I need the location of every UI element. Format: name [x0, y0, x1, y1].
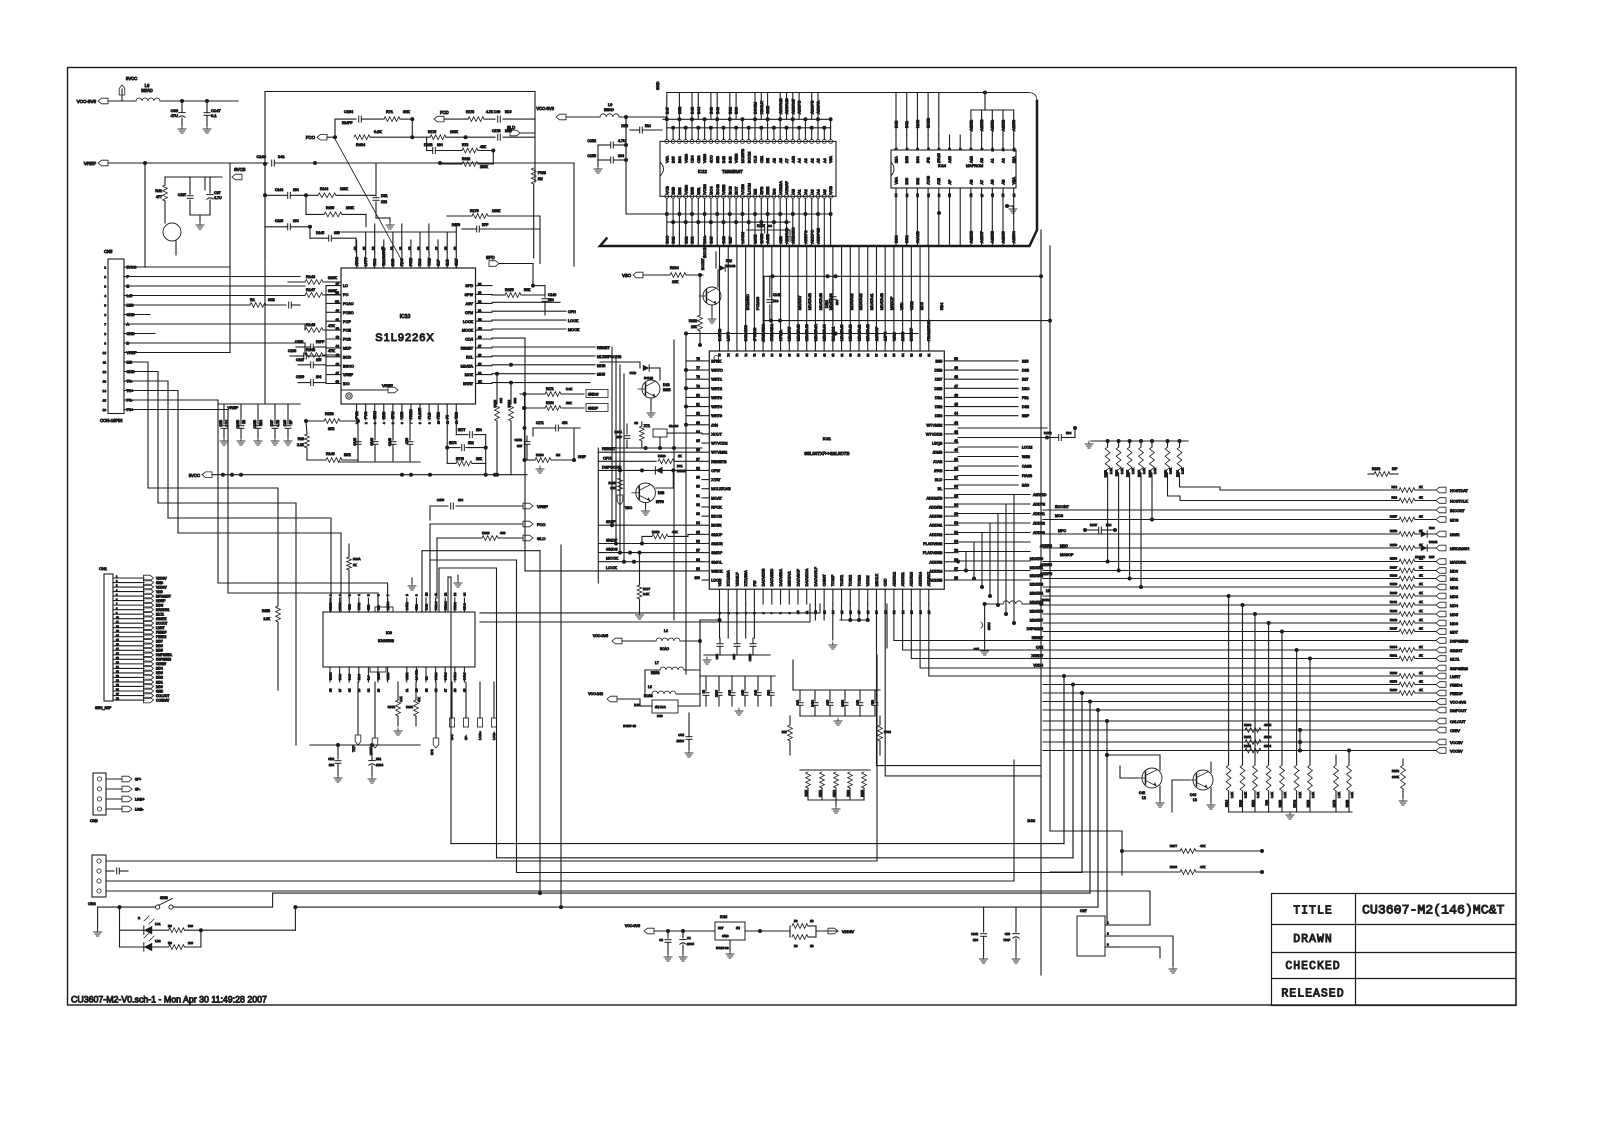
svg-text:100: 100 [694, 576, 700, 580]
svg-text:A0DF1D: A0DF1D [1033, 493, 1047, 497]
svg-text:LOOM: LOOM [1022, 446, 1032, 450]
svg-text:12: 12 [1012, 148, 1016, 152]
svg-text:CLB: CLB [754, 155, 758, 163]
svg-text:D9B: D9B [1022, 369, 1030, 373]
svg-text:31: 31 [926, 193, 930, 197]
svg-text:A2: A2 [804, 189, 808, 194]
svg-text:BE: BE [766, 158, 770, 163]
svg-text:70: 70 [761, 353, 765, 357]
svg-text:MRD/MWH: MRD/MWH [1450, 547, 1469, 551]
svg-text:GNDS: GNDS [606, 547, 618, 552]
svg-text:ADDR12: ADDR12 [892, 572, 896, 586]
svg-text:A1: A1 [798, 189, 802, 194]
svg-text:FCO: FCO [537, 522, 545, 527]
svg-text:ADDPB: ADDPB [809, 100, 814, 114]
svg-text:B414B: B414B [644, 376, 653, 380]
svg-text:104: 104 [835, 300, 839, 305]
svg-text:8K2: 8K2 [328, 427, 334, 431]
svg-text:44: 44 [336, 344, 340, 348]
svg-text:470H: 470H [1264, 723, 1271, 727]
svg-text:C140: C140 [548, 293, 556, 297]
svg-text:B6O: B6O [664, 236, 669, 244]
svg-text:90: 90 [696, 485, 700, 489]
svg-text:C127: C127 [178, 193, 186, 197]
svg-text:C2B: C2B [219, 419, 223, 426]
svg-text:SMDN: SMDN [711, 542, 722, 546]
svg-text:DB-2: DB-2 [463, 603, 467, 610]
svg-text:BO7: BO7 [735, 187, 739, 194]
svg-text:R13: R13 [1391, 496, 1397, 500]
svg-text:PO: PO [343, 293, 348, 297]
svg-text:16: 16 [478, 353, 482, 357]
svg-text:V5A: V5A [665, 155, 669, 163]
svg-text:R145: R145 [306, 323, 315, 327]
svg-text:24: 24 [367, 688, 371, 692]
svg-text:C155: C155 [437, 498, 445, 502]
svg-text:B62: B62 [683, 237, 688, 244]
svg-text:VREF: VREF [343, 373, 354, 377]
svg-text:10K: 10K [672, 280, 679, 284]
svg-text:1M: 1M [556, 453, 561, 457]
svg-text:MCS: MCS [1450, 518, 1459, 522]
svg-text:CB1: CB1 [760, 156, 764, 163]
svg-text:C166: C166 [275, 219, 283, 223]
svg-text:CASB: CASB [1022, 465, 1032, 469]
svg-text:97: 97 [696, 549, 700, 553]
svg-text:C171: C171 [536, 421, 544, 425]
svg-text:4.7U: 4.7U [214, 196, 222, 200]
svg-text:CK5V: CK5V [1450, 729, 1460, 733]
svg-text:K3: K3 [794, 919, 798, 923]
svg-text:R372: R372 [1392, 769, 1400, 773]
svg-text:MDATA4B: MDATA4B [819, 293, 823, 310]
svg-text:R512: R512 [1251, 800, 1255, 807]
svg-text:R27B: R27B [1148, 470, 1152, 477]
svg-text:D1B7: D1B7 [757, 224, 765, 228]
svg-text:BOD: BOD [343, 355, 351, 359]
svg-text:1K: 1K [1419, 618, 1423, 622]
svg-text:R377: R377 [1170, 844, 1178, 848]
svg-text:MADDR1: MADDR1 [156, 608, 170, 612]
svg-text:MDATA: MDATA [461, 364, 474, 368]
svg-text:FCD: FCD [440, 110, 449, 115]
svg-text:CLVI: CLVI [465, 338, 473, 342]
svg-text:66: 66 [796, 353, 800, 357]
svg-text:V5BB: V5BB [735, 153, 739, 163]
svg-text:4.7U: 4.7U [618, 139, 626, 143]
svg-text:B65: B65 [709, 237, 714, 244]
svg-text:C155: C155 [587, 154, 596, 158]
svg-text:XTLVBBA: XTLVBBA [744, 570, 748, 587]
svg-text:33MHT: 33MHT [1450, 649, 1463, 653]
svg-text:1B: 1B [969, 193, 973, 197]
svg-text:RESET: RESET [602, 446, 616, 451]
svg-text:POBO: POBO [343, 311, 354, 315]
svg-text:C136: C136 [288, 349, 296, 353]
svg-text:MH5: MH5 [597, 373, 605, 377]
svg-text:LD2: LD2 [155, 939, 161, 943]
svg-text:RB4: RB4 [940, 303, 944, 310]
svg-text:L7: L7 [655, 661, 659, 665]
svg-text:R347: R347 [1390, 627, 1398, 631]
svg-text:MCK: MCK [465, 373, 474, 377]
svg-text:49: 49 [954, 366, 958, 370]
svg-text:IC9: IC9 [386, 631, 392, 635]
svg-text:1K: 1K [1419, 591, 1423, 595]
svg-text:C37: C37 [214, 191, 221, 195]
svg-text:POAO: POAO [343, 302, 354, 306]
svg-text:DIP: DIP [1392, 467, 1397, 471]
svg-text:A1: A1 [991, 158, 995, 163]
svg-text:C41: C41 [796, 700, 800, 705]
svg-text:C14B: C14B [773, 293, 781, 297]
svg-text:B61: B61 [727, 107, 732, 114]
svg-text:OB3: OB3 [697, 156, 701, 163]
svg-text:2.2K: 2.2K [1181, 468, 1185, 474]
svg-text:CFH: CFH [568, 310, 576, 314]
svg-text:A3: A3 [810, 189, 814, 194]
svg-text:12: 12 [444, 592, 448, 596]
svg-text:PWB: PWB [538, 171, 547, 175]
svg-text:CONDAT: CONDAT [156, 698, 169, 702]
svg-text:DB3: DB3 [935, 414, 942, 418]
svg-text:MD1: MD1 [156, 680, 163, 684]
svg-text:40: 40 [336, 309, 340, 313]
svg-text:3B2: 3B2 [513, 398, 517, 404]
svg-text:R514: R514 [1225, 800, 1229, 807]
svg-text:VDD2LF: VDD2LF [735, 572, 739, 587]
svg-text:ADDR4B: ADDR4B [784, 98, 789, 114]
svg-text:22: 22 [478, 300, 482, 304]
svg-text:FEED2: FEED2 [156, 635, 167, 639]
svg-text:CHECKED: CHECKED [1285, 960, 1340, 973]
svg-text:1BK: 1BK [610, 486, 616, 490]
svg-text:BBF: BBF [1022, 414, 1030, 418]
svg-text:56: 56 [883, 353, 887, 357]
svg-text:EVD3: EVD3 [328, 672, 332, 680]
svg-text:B64: B64 [678, 156, 682, 163]
svg-text:23: 23 [376, 688, 380, 692]
svg-text:R159: R159 [325, 412, 334, 416]
svg-text:D3B: D3B [658, 491, 664, 495]
svg-text:R368: R368 [1390, 671, 1398, 675]
svg-text:23: 23 [478, 291, 482, 295]
svg-text:BOOM: BOOM [753, 102, 758, 114]
svg-text:DNB: DNB [391, 258, 395, 266]
svg-text:MDATA6: MDATA6 [1030, 610, 1043, 614]
svg-text:R17B: R17B [652, 530, 660, 534]
svg-text:B45.3: B45.3 [434, 672, 438, 680]
svg-text:43K: 43K [480, 145, 487, 149]
svg-text:B4B: B4B [722, 155, 726, 163]
svg-text:R264: R264 [1244, 723, 1252, 727]
svg-text:MPC: MPC [1058, 529, 1066, 533]
svg-text:K14: K14 [1106, 523, 1112, 527]
svg-text:ADDPB: ADDPB [797, 100, 802, 114]
svg-text:MUTC: MUTC [386, 602, 390, 610]
svg-text:R12: R12 [1391, 485, 1397, 489]
svg-text:TDB: TDB [454, 411, 458, 419]
svg-text:RESET: RESET [597, 346, 610, 350]
svg-text:ATSC: ATSC [355, 256, 359, 266]
svg-text:WRT4: WRT4 [711, 405, 722, 409]
svg-text:365: 365 [334, 231, 340, 235]
svg-text:C44: C44 [974, 647, 980, 651]
svg-text:C3: C3 [659, 938, 663, 942]
svg-text:10K: 10K [691, 325, 698, 329]
svg-text:780F: 780F [1003, 938, 1010, 942]
svg-text:ADDR1: ADDR1 [1033, 512, 1045, 516]
svg-text:DAN1: DAN1 [405, 602, 409, 610]
svg-text:D6B: D6B [1022, 405, 1030, 409]
svg-text:80: 80 [696, 393, 700, 397]
svg-text:AB: AB [779, 158, 783, 163]
svg-text:GND: GND [656, 81, 660, 90]
svg-text:C4: C4 [768, 224, 772, 228]
svg-text:BCAB: BCAB [644, 694, 653, 698]
svg-text:A1B51: A1B51 [991, 120, 995, 131]
svg-text:MDRF: MDRF [156, 599, 165, 603]
svg-text:WTVDDB: WTVDDB [926, 432, 943, 436]
svg-text:2.2K: 2.2K [1120, 468, 1124, 474]
svg-text:BA14B: BA14B [726, 264, 735, 268]
svg-text:A1B55: A1B55 [1000, 231, 1005, 243]
svg-text:MAGOP: MAGOP [1060, 553, 1074, 557]
svg-text:A7: A7 [785, 158, 789, 163]
svg-text:L4: L4 [664, 629, 668, 633]
svg-text:1B: 1B [810, 919, 814, 923]
svg-text:R26: R26 [298, 437, 304, 441]
svg-text:A1B51: A1B51 [969, 120, 973, 131]
svg-text:R22: R22 [726, 259, 732, 263]
svg-text:325: 325 [517, 444, 522, 448]
svg-text:BOOM: BOOM [747, 152, 751, 163]
svg-text:VREF: VREF [537, 504, 548, 509]
svg-text:DBB: DBB [934, 387, 942, 391]
svg-text:MD0: MD0 [1450, 569, 1458, 573]
svg-text:1K: 1K [1419, 582, 1423, 586]
svg-text:VDDH: VDDH [1033, 664, 1043, 668]
svg-text:R243: R243 [1390, 618, 1398, 622]
svg-text:ADDR14: ADDR14 [918, 572, 922, 586]
svg-text:R348: R348 [1390, 574, 1398, 578]
svg-text:1K: 1K [1419, 654, 1423, 658]
svg-text:BD5N: BD5N [711, 524, 721, 528]
svg-text:10: 10 [103, 351, 107, 355]
svg-text:WRT2: WRT2 [711, 387, 722, 391]
svg-text:VCC-5V5: VCC-5V5 [625, 924, 640, 928]
svg-text:135: 135 [316, 358, 322, 362]
svg-text:1M: 1M [538, 177, 543, 181]
svg-text:1K: 1K [1419, 627, 1423, 631]
svg-text:1B4: 1B4 [548, 298, 554, 302]
svg-text:MD7: MD7 [156, 640, 163, 644]
svg-text:BE: BE [754, 189, 758, 194]
svg-text:B5B: B5B [672, 186, 676, 194]
svg-text:RESET: RESET [461, 347, 474, 351]
svg-text:6P-: 6P- [135, 788, 140, 792]
svg-text:222: 222 [381, 200, 387, 204]
svg-text:B5B: B5B [716, 155, 720, 163]
svg-text:CHB6T: CHB6T [823, 574, 827, 587]
svg-text:71: 71 [753, 353, 757, 357]
svg-text:SLW: SLW [454, 258, 458, 266]
svg-text:MWR: MWR [1450, 533, 1460, 537]
svg-text:DD2-1: DD2-1 [434, 601, 438, 610]
svg-text:B4S: B4S [1027, 818, 1035, 823]
svg-text:44: 44 [954, 412, 958, 416]
svg-text:B43: B43 [715, 107, 720, 114]
svg-text:30: 30 [937, 193, 941, 197]
svg-text:11: 11 [1001, 148, 1005, 151]
svg-text:K14: K14 [645, 124, 651, 128]
svg-text:FRSH: FRSH [409, 409, 413, 419]
svg-text:B27: B27 [1022, 378, 1028, 382]
svg-text:A5: A5 [817, 158, 821, 163]
svg-text:1B: 1B [424, 592, 428, 596]
svg-text:3B: 3B [335, 291, 339, 295]
svg-text:47: 47 [336, 371, 340, 375]
svg-text:27: 27 [338, 688, 342, 692]
svg-text:R27B: R27B [1104, 470, 1108, 477]
svg-text:A3: A3 [804, 158, 808, 163]
svg-text:0.1: 0.1 [211, 113, 217, 118]
svg-text:/OE: /OE [937, 178, 941, 185]
svg-text:A1B54: A1B54 [1011, 230, 1016, 243]
svg-text:86: 86 [696, 448, 700, 452]
svg-text:B4B: B4B [657, 714, 663, 718]
svg-text:A1B: A1B [791, 155, 795, 163]
svg-text:DMPMEML: DMPMEML [156, 653, 173, 657]
svg-text:LOOM: LOOM [740, 232, 745, 243]
svg-text:95: 95 [696, 530, 700, 534]
svg-text:40: 40 [954, 448, 958, 452]
svg-text:TCW: TCW [427, 257, 431, 266]
svg-text:DSPSENS: DSPSENS [1450, 639, 1469, 643]
svg-text:VDD3V: VDD3V [156, 585, 168, 589]
svg-text:R257: R257 [1390, 515, 1398, 519]
svg-text:RT75: RT75 [456, 457, 464, 461]
svg-text:S9H_26P: S9H_26P [95, 706, 112, 710]
svg-text:A1B53: A1B53 [1012, 120, 1016, 131]
svg-text:B4.J: B4.J [348, 674, 352, 680]
svg-text:ADDP1: ADDP1 [803, 231, 808, 244]
svg-text:V5BB: V5BB [722, 184, 726, 194]
svg-text:XOUT: XOUT [711, 432, 722, 436]
svg-text:14: 14 [463, 592, 467, 596]
svg-text:61: 61 [840, 353, 844, 357]
svg-text:BPB: BPB [760, 186, 764, 194]
svg-text:130K: 130K [450, 130, 459, 134]
svg-text:1B: 1B [242, 420, 246, 424]
svg-text:ADDR2: ADDR2 [929, 533, 942, 537]
svg-text:MDATA4B: MDATA4B [880, 293, 884, 310]
svg-text:3.3K: 3.3K [1256, 792, 1260, 798]
svg-text:B61: B61 [904, 121, 909, 128]
svg-text:L6: L6 [648, 685, 652, 689]
svg-text:DACVBBD: DACVBBD [770, 568, 774, 586]
svg-text:SP-: SP- [464, 735, 468, 740]
svg-text:MOCK: MOCK [568, 328, 580, 332]
svg-text:11: 11 [103, 361, 106, 365]
svg-text:CU3607-M2-V0.sch-1 - Mon Apr: CU3607-M2-V0.sch-1 - Mon Apr 30 11:49:28… [71, 995, 267, 1005]
svg-text:XTLVBBA: XTLVBBA [727, 570, 731, 587]
svg-text:1N DLR: 1N DLR [655, 705, 667, 709]
svg-text:R73: R73 [462, 143, 468, 147]
svg-text:43: 43 [954, 421, 958, 425]
svg-text:C45: C45 [741, 690, 745, 695]
svg-text:CN1: CN1 [99, 566, 108, 571]
svg-text:1B4: 1B4 [329, 763, 335, 767]
svg-text:MBCLK: MBCLK [875, 573, 879, 586]
svg-text:41: 41 [336, 317, 340, 321]
svg-text:C153: C153 [295, 340, 303, 344]
svg-text:D5O: D5O [1022, 387, 1030, 391]
svg-text:1BB4: 1BB4 [376, 763, 383, 767]
svg-text:2.2K: 2.2K [1153, 468, 1157, 474]
svg-text:B63: B63 [905, 178, 909, 185]
svg-text:LBQB: LBQB [932, 442, 943, 446]
svg-text:E174: E174 [449, 441, 457, 445]
svg-text:WECK: WECK [711, 569, 723, 573]
svg-text:L0db+: L0db+ [135, 798, 145, 802]
svg-text:R12B: R12B [482, 531, 490, 535]
svg-text:D1B1: D1B1 [825, 300, 829, 308]
svg-text:B414B: B414B [1429, 540, 1438, 544]
svg-text:RESET: RESET [1032, 636, 1043, 640]
svg-text:55: 55 [892, 353, 896, 357]
svg-text:A4: A4 [823, 158, 827, 163]
svg-text:1B4: 1B4 [973, 938, 979, 942]
svg-text:WTVM62: WTVM62 [711, 451, 727, 455]
svg-text:64: 64 [814, 353, 818, 357]
svg-text:C4B: C4B [728, 690, 732, 695]
svg-text:13: 13 [453, 592, 457, 596]
svg-text:R26H: R26H [1372, 467, 1381, 471]
svg-text:59: 59 [857, 353, 861, 357]
svg-text:C13B: C13B [253, 419, 257, 428]
svg-text:ADDPB: ADDPB [1033, 503, 1046, 507]
svg-text:TMS2516T: TMS2516T [722, 169, 743, 174]
svg-text:CKE: CKE [765, 106, 770, 114]
svg-text:R182: R182 [462, 157, 470, 161]
svg-text:00B: 00B [268, 298, 275, 302]
svg-text:IC12: IC12 [698, 169, 708, 174]
svg-text:RFCK: RFCK [711, 505, 722, 509]
svg-text:BFEK: BFEK [711, 359, 721, 363]
svg-text:VOB8: VOB8 [703, 184, 707, 194]
svg-text:VDD: VDD [156, 590, 163, 594]
svg-text:MOCK: MOCK [462, 329, 474, 333]
svg-text:A1B5B: A1B5B [990, 230, 995, 243]
svg-text:47K: 47K [1200, 865, 1205, 869]
svg-text:6P+: 6P+ [135, 778, 141, 782]
svg-text:FIASB: FIASB [1022, 474, 1033, 478]
svg-text:SMCF: SMCF [711, 533, 722, 537]
svg-text:MDATA7: MDATA7 [798, 296, 802, 310]
svg-text:D24: D24 [1429, 526, 1435, 530]
svg-text:1B: 1B [424, 688, 428, 692]
svg-text:22A: 22A [1012, 156, 1016, 163]
svg-text:RESETB: RESETB [711, 460, 727, 464]
svg-text:WRT1: WRT1 [711, 378, 722, 382]
svg-text:EA5B: EA5B [759, 233, 764, 243]
svg-text:43: 43 [336, 335, 340, 339]
svg-text:15: 15 [478, 362, 482, 366]
svg-text:85: 85 [696, 439, 700, 443]
svg-text:33: 33 [954, 512, 958, 516]
svg-text:MPD/MDT: MPD/MDT [156, 594, 171, 598]
